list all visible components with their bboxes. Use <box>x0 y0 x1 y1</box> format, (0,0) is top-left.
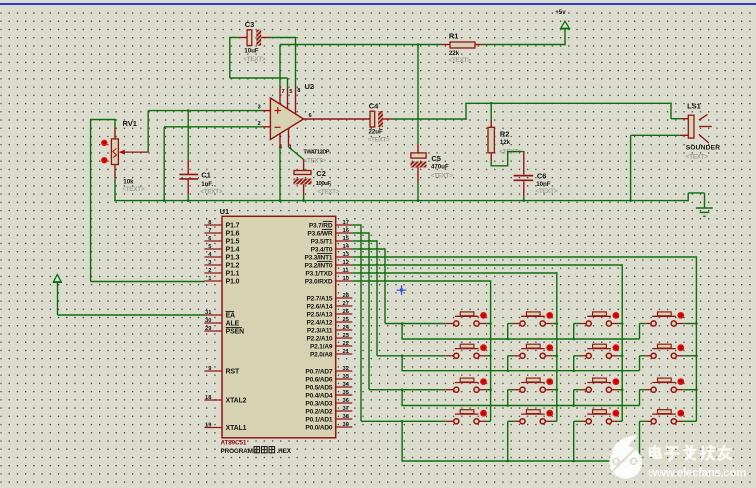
pin P2.7/A15 (pin 28) <box>306 293 352 303</box>
wire U2 pin2 to ground rail <box>164 127 270 202</box>
svg-text:R2: R2 <box>500 129 510 138</box>
svg-text:39: 39 <box>343 422 350 428</box>
pin P1.1 (pin 2) <box>204 268 239 278</box>
svg-text:15: 15 <box>343 236 350 242</box>
svg-text:25: 25 <box>343 317 350 323</box>
svg-text:RST: RST <box>226 369 240 376</box>
push button keypad row 4 col 3 <box>586 410 622 424</box>
svg-text:P2.5/A13: P2.5/A13 <box>306 312 332 319</box>
RV1 state dots <box>101 140 107 164</box>
pin P2.5/A13 (pin 26) <box>306 309 352 319</box>
capacitor C3 <box>243 20 266 63</box>
wire C3 right to pin8 <box>261 38 296 115</box>
svg-text:P1.1: P1.1 <box>226 271 240 278</box>
ground symbol <box>688 193 713 216</box>
pin P2.6/A14 (pin 27) <box>306 301 352 311</box>
svg-text:19: 19 <box>205 422 212 428</box>
svg-text:<TEXT>: <TEXT> <box>243 56 266 63</box>
pin P1.2 (pin 3) <box>204 260 239 270</box>
capacitor C2 <box>294 169 340 201</box>
svg-text:P2.2/A10: P2.2/A10 <box>306 336 332 343</box>
svg-text:P2.3/A11: P2.3/A11 <box>307 328 333 335</box>
svg-text:<TEXT>: <TEXT> <box>317 188 340 195</box>
ground rail <box>114 199 688 202</box>
svg-text:2: 2 <box>208 268 211 274</box>
push button keypad row 1 col 2 <box>520 312 557 326</box>
svg-text:P0.3/AD3: P0.3/AD3 <box>305 401 333 408</box>
svg-text:31: 31 <box>205 310 212 316</box>
svg-text:P1.6: P1.6 <box>226 231 240 238</box>
svg-text:P2.4/A12: P2.4/A12 <box>306 320 332 327</box>
svg-text:P3.5/T1: P3.5/T1 <box>311 239 333 246</box>
wire P3.0 keypad column 1 net <box>352 280 492 421</box>
svg-text:35: 35 <box>343 390 350 396</box>
wire C3 left loop to pin5 <box>230 37 288 110</box>
wire keypad row 2 net <box>352 240 651 372</box>
pin P3.6/WR (pin 16) <box>307 228 352 238</box>
svg-text:P3.7/RD: P3.7/RD <box>309 223 333 230</box>
push button keypad row 3 col 1 <box>454 378 491 392</box>
svg-text:P2.7/A15: P2.7/A15 <box>306 296 332 303</box>
svg-text:P0.1/AD1: P0.1/AD1 <box>305 417 333 424</box>
svg-text:P3.4/T0: P3.4/T0 <box>311 247 333 254</box>
push button keypad row 1 col 4 <box>651 312 696 326</box>
wire C5 branch from +5V net <box>417 45 419 154</box>
svg-text:18: 18 <box>205 395 212 401</box>
wire LS1 feed <box>671 103 688 119</box>
svg-text:P0.6/AD6: P0.6/AD6 <box>305 377 333 384</box>
svg-text:22uF: 22uF <box>369 129 384 136</box>
pin P0.5/AD5 (pin 34) <box>305 382 352 392</box>
pin P1.0 (pin 1) <box>204 276 239 286</box>
svg-text:P1.7: P1.7 <box>226 223 240 230</box>
svg-text:11: 11 <box>343 268 350 274</box>
svg-text:P1.5: P1.5 <box>226 239 240 246</box>
pin P3.4/T0 (pin 14) <box>311 244 353 254</box>
svg-text:P1.3: P1.3 <box>226 255 240 262</box>
svg-text:29: 29 <box>205 326 212 332</box>
push button keypad row 2 col 2 <box>520 344 557 358</box>
svg-text:EA: EA <box>226 313 235 320</box>
svg-text:P1.4: P1.4 <box>226 247 240 254</box>
svg-text:21: 21 <box>343 349 350 355</box>
svg-text:LS1: LS1 <box>687 102 701 111</box>
pin P3.2/INT0 (pin 12) <box>304 260 352 270</box>
wire U2 pin4 to ground rail <box>279 134 281 202</box>
svg-text:SOUNDER: SOUNDER <box>686 145 721 152</box>
svg-text:<TEXT>: <TEXT> <box>368 137 391 144</box>
push button keypad row 1 col 1 <box>454 312 491 326</box>
svg-text:30: 30 <box>205 318 211 324</box>
pin P1.3 (pin 4) <box>204 252 239 262</box>
svg-text:38: 38 <box>343 414 350 420</box>
sounder LS1 <box>686 102 721 161</box>
svg-text:C6: C6 <box>537 172 547 181</box>
svg-text:10: 10 <box>343 276 349 282</box>
origin marker (blue crosshair) <box>397 285 407 295</box>
svg-text:24: 24 <box>343 325 350 331</box>
svg-text:P2.0/A8: P2.0/A8 <box>310 352 333 359</box>
svg-text:P3.0/RXD: P3.0/RXD <box>305 279 333 286</box>
svg-text:P3.6/WR: P3.6/WR <box>307 231 332 238</box>
wire P3.3 keypad column 4 net <box>352 256 697 421</box>
watermark logo elecfans <box>609 435 642 478</box>
svg-text:2: 2 <box>258 121 261 127</box>
svg-text:P3.3/INT1: P3.3/INT1 <box>304 255 332 262</box>
svg-text:22: 22 <box>343 341 349 347</box>
svg-text:www.elecfans.com: www.elecfans.com <box>648 467 747 479</box>
svg-text:P0.5/AD5: P0.5/AD5 <box>305 385 333 392</box>
svg-text:32: 32 <box>343 366 349 372</box>
svg-text:470uF: 470uF <box>431 163 449 170</box>
push button keypad row 2 col 4 <box>651 344 696 358</box>
wire C4 to audio bus <box>383 103 467 119</box>
svg-text:PSEN: PSEN <box>226 329 244 336</box>
wire pin7 up to R1 net, to +5V <box>280 29 566 105</box>
wire keypad row 3 net <box>352 232 651 407</box>
svg-text:P1.2: P1.2 <box>226 263 240 270</box>
push button keypad row 3 col 3 <box>586 378 622 392</box>
push button keypad row 4 col 4 <box>651 410 696 424</box>
svg-text:PROGRAM=: PROGRAM= <box>221 448 257 455</box>
wire RV1 top to P1.0 (left vertical) <box>91 119 205 282</box>
wire U2 pin6 output to C4 <box>303 118 370 120</box>
svg-text:TWAT12DP: TWAT12DP <box>303 150 330 156</box>
svg-text:P2.6/A14: P2.6/A14 <box>306 304 332 311</box>
svg-text:<TEXT>: <TEXT> <box>535 188 558 195</box>
pin EA (pin 31) <box>204 310 235 320</box>
svg-text:P1.0: P1.0 <box>226 279 240 286</box>
push button keypad row 4 col 2 <box>520 410 557 424</box>
svg-text:XTAL1: XTAL1 <box>226 425 247 432</box>
svg-text:C4: C4 <box>369 102 379 111</box>
pin P0.1/AD1 (pin 38) <box>305 414 352 424</box>
microcontroller U1 AT89C51 <box>220 207 336 455</box>
pin XTAL2 (pin 18) <box>204 395 246 405</box>
pin P1.7 (pin 8) <box>204 220 239 230</box>
pin P1.5 (pin 6) <box>204 236 239 246</box>
pin P2.1/A9 (pin 22) <box>310 341 352 351</box>
pin RST (pin 9) <box>204 366 240 376</box>
svg-text:36: 36 <box>343 398 350 404</box>
wire LS1 bottom to rail <box>631 135 689 200</box>
wire U2 pin1 to C2 <box>289 128 304 170</box>
pin P3.5/T1 (pin 15) <box>311 236 353 246</box>
svg-text:7: 7 <box>208 228 211 234</box>
svg-text:ALE: ALE <box>226 321 240 328</box>
capacitor C6 <box>514 172 558 202</box>
svg-text:33: 33 <box>343 374 350 380</box>
svg-text:<TEXT>: <TEXT> <box>303 158 326 165</box>
pin P3.1/TXD (pin 11) <box>305 268 352 278</box>
svg-text:C1: C1 <box>201 171 211 180</box>
svg-text:<TEXT>: <TEXT> <box>686 153 709 160</box>
svg-text:U2: U2 <box>305 82 315 91</box>
svg-text:XTAL2: XTAL2 <box>226 398 247 405</box>
pin P2.0/A8 (pin 21) <box>310 349 352 359</box>
svg-text:C5: C5 <box>431 154 441 163</box>
pin P0.2/AD2 (pin 37) <box>305 406 352 416</box>
pin P2.2/A10 (pin 23) <box>306 333 352 343</box>
push button keypad row 2 col 3 <box>586 344 622 358</box>
svg-text:17: 17 <box>343 220 349 226</box>
pin PSEN (pin 29) <box>204 326 244 336</box>
pin P0.0/AD0 (pin 39) <box>305 422 352 432</box>
svg-text:37: 37 <box>343 406 349 412</box>
capacitor C5 <box>411 153 454 201</box>
pin P1.6 (pin 7) <box>204 228 239 238</box>
resistor R1 <box>442 32 483 65</box>
svg-text:34: 34 <box>343 382 350 388</box>
pin P0.7/AD7 (pin 32) <box>305 366 352 376</box>
wire terminal to EA <box>58 282 205 315</box>
svg-text:<TEXT>: <TEXT> <box>449 57 472 64</box>
wire P3.1 keypad column 2 net <box>352 272 558 421</box>
pin P1.4 (pin 5) <box>204 244 239 254</box>
svg-text:100uF.: 100uF. <box>316 181 332 187</box>
watermark text 电子发烧友 (vector strokes) <box>650 446 661 458</box>
svg-text:U1: U1 <box>220 207 230 216</box>
push button keypad row 1 col 3 <box>586 312 622 326</box>
svg-text:14: 14 <box>343 244 350 250</box>
push button keypad row 3 col 4 <box>651 378 696 392</box>
svg-text:C3: C3 <box>245 20 255 29</box>
svg-text:10nF: 10nF <box>536 181 551 188</box>
svg-text:<TEXT>: <TEXT> <box>431 172 454 179</box>
svg-text:10uF: 10uF <box>244 48 259 55</box>
wire keypad row 1 net <box>352 248 651 340</box>
wire RV1 wiper to U2 pin3 <box>148 109 270 152</box>
svg-text:.HEX: .HEX <box>277 448 292 455</box>
svg-text:P0.0/AD0: P0.0/AD0 <box>305 425 333 432</box>
svg-text:P0.2/AD2: P0.2/AD2 <box>305 409 333 416</box>
pin P0.4/AD4 (pin 35) <box>305 390 352 400</box>
svg-text:C2: C2 <box>316 169 326 178</box>
svg-text:P0.7/AD7: P0.7/AD7 <box>305 369 333 376</box>
svg-text:26: 26 <box>343 309 350 315</box>
svg-text:10k: 10k <box>123 179 134 186</box>
input terminal arrow <box>53 275 62 283</box>
svg-text:P0.4/AD4: P0.4/AD4 <box>305 393 333 400</box>
svg-text:27: 27 <box>343 301 349 307</box>
push button keypad row 4 col 1 <box>454 410 491 424</box>
svg-text:12: 12 <box>343 260 349 266</box>
svg-text:RV1: RV1 <box>123 119 137 128</box>
pin P0.6/AD6 (pin 33) <box>305 374 352 384</box>
wire keypad row 4 net <box>352 224 651 462</box>
svg-text:<TEXT>: <TEXT> <box>122 186 145 193</box>
push button keypad row 3 col 2 <box>520 378 557 392</box>
capacitor C1 <box>179 111 222 202</box>
svg-text:P2.1/A9: P2.1/A9 <box>310 344 333 351</box>
wire R2 to C6 <box>491 151 525 175</box>
top blue border <box>0 3 756 5</box>
svg-text:+5v: +5v <box>555 9 566 16</box>
svg-text:R1: R1 <box>449 32 459 41</box>
pin P3.3/INT1 (pin 13) <box>304 252 352 262</box>
svg-text:P3.1/TXD: P3.1/TXD <box>305 271 332 278</box>
wire audio bus to LS1 <box>465 102 671 105</box>
pin P2.3/A11 (pin 24) <box>307 325 352 335</box>
capacitor C4 <box>368 102 391 144</box>
wire P3.2 keypad column 3 net <box>352 264 623 421</box>
svg-text:22k: 22k <box>449 50 460 57</box>
push button keypad row 2 col 1 <box>454 344 491 358</box>
svg-text:23: 23 <box>343 333 350 339</box>
svg-text:7: 7 <box>282 89 285 95</box>
svg-text:AT89C51: AT89C51 <box>221 440 247 447</box>
pin ALE (pin 30) <box>204 318 239 328</box>
svg-text:P3.2/INT0: P3.2/INT0 <box>304 263 332 270</box>
pin P2.4/A12 (pin 25) <box>306 317 352 327</box>
resistor R2 <box>488 103 522 166</box>
pin P3.0/RXD (pin 10) <box>305 276 353 286</box>
svg-text:16: 16 <box>343 228 350 234</box>
svg-text:1nF.: 1nF. <box>201 181 213 188</box>
svg-text:<TEXT>: <TEXT> <box>200 188 223 195</box>
power +5V terminal <box>555 9 570 29</box>
pin P0.3/AD3 (pin 36) <box>305 398 352 408</box>
svg-text:13: 13 <box>343 252 350 258</box>
svg-text:12k: 12k <box>500 139 511 146</box>
pin XTAL1 (pin 19) <box>204 422 246 432</box>
pin P3.7/RD (pin 17) <box>309 220 352 230</box>
svg-text:28: 28 <box>343 293 350 299</box>
op-amp U2 (audio amplifier) <box>258 82 330 165</box>
potentiometer RV1 <box>111 119 148 201</box>
